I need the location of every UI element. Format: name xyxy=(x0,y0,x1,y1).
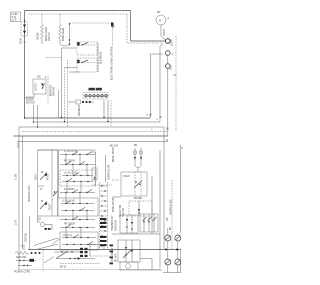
bus 6 xyxy=(18,141,168,143)
motor box xyxy=(120,262,138,270)
svg-text:R: R xyxy=(182,148,184,150)
svg-text:SW: SW xyxy=(37,77,42,79)
switch bank right verticals xyxy=(96,152,106,186)
switch door latch xyxy=(33,79,46,94)
contact row 5 xyxy=(60,190,95,194)
svg-text:Y: Y xyxy=(151,130,153,132)
contact row 6 xyxy=(61,201,94,205)
surface switch box left xyxy=(38,150,58,216)
svg-text:OVEN: OVEN xyxy=(123,176,130,178)
wire right element vertical xyxy=(69,23,71,46)
terminal marks xyxy=(45,228,48,230)
wire oven right vertical xyxy=(159,150,161,268)
junction dots on buses xyxy=(24,117,25,118)
svg-text:BR: BR xyxy=(134,145,138,147)
svg-text:SW A: SW A xyxy=(35,174,38,180)
buzzer B1 xyxy=(38,216,41,222)
switch arm diagonal xyxy=(56,252,66,259)
wire top horizontal L1 xyxy=(25,10,131,12)
wire bottom right jog xyxy=(138,269,162,271)
bottom terminal block xyxy=(15,252,41,255)
svg-text:ELECTRONIC OVEN CONTROL: ELECTRONIC OVEN CONTROL xyxy=(112,45,114,80)
svg-text:LIGHT: LIGHT xyxy=(172,39,174,46)
wire relay right vertical xyxy=(97,43,99,72)
wire bottom right bus xyxy=(163,272,181,274)
bottom mid contact row A xyxy=(54,251,80,252)
left rail 2 xyxy=(22,136,24,250)
svg-text:SWITCH: SWITCH xyxy=(123,208,125,217)
resistor bake element xyxy=(59,14,62,44)
connector curl xyxy=(60,44,69,46)
svg-text:BK: BK xyxy=(166,129,170,131)
svg-text:PILOT: PILOT xyxy=(50,203,52,210)
svg-text:BAKE 2600W: BAKE 2600W xyxy=(112,197,115,212)
contact row 8 xyxy=(60,217,95,221)
svg-text:FUSE: FUSE xyxy=(21,37,23,44)
svg-text:2: 2 xyxy=(45,77,47,79)
wire latch drop xyxy=(25,94,35,98)
svg-text:SWITCH: SWITCH xyxy=(54,87,56,96)
dashed switch box xyxy=(60,170,95,186)
lamp PL2 xyxy=(166,51,171,56)
svg-text:A: A xyxy=(172,53,174,56)
lamp PL3 xyxy=(166,64,171,69)
svg-text:L1 BK: L1 BK xyxy=(16,173,18,180)
svg-text:BK W R: BK W R xyxy=(110,146,119,148)
svg-text:SURFACE SW: SURFACE SW xyxy=(108,164,111,180)
bus 1 xyxy=(25,117,151,119)
wire dashed into box xyxy=(112,179,120,181)
sw cluster 2 xyxy=(40,200,52,210)
wire dashed right rail xyxy=(175,36,177,131)
svg-text:3400W: 3400W xyxy=(37,32,39,40)
wire lamp chain xyxy=(167,56,169,64)
connector ladder rails xyxy=(100,182,108,250)
switch box bottom xyxy=(60,232,98,250)
svg-text:GY: GY xyxy=(173,75,177,77)
wire right riser 2 xyxy=(160,44,164,122)
contact row 1 xyxy=(60,152,95,156)
svg-text:W: W xyxy=(166,140,169,142)
contact row 11 xyxy=(62,242,96,246)
lamp grid wires xyxy=(168,132,181,236)
bus 4 dashed xyxy=(22,131,168,133)
wire dashed latch rail xyxy=(47,76,49,104)
svg-text:L1 H1 L2 H2: L1 H1 L2 H2 xyxy=(64,173,78,175)
wire lamp feed xyxy=(161,25,165,40)
relay K2 xyxy=(77,58,97,72)
wire right riser 1 xyxy=(151,54,164,118)
svg-text:SURFACE UNIT: SURFACE UNIT xyxy=(28,185,31,202)
tick label mid xyxy=(38,185,44,187)
svg-text:6: 6 xyxy=(157,119,159,121)
svg-text:MONITOR: MONITOR xyxy=(51,85,53,96)
lamp grid bottom left xyxy=(165,259,171,265)
svg-text:L2 R: L2 R xyxy=(12,19,17,21)
sloped feed wires xyxy=(34,238,58,249)
element top pair xyxy=(133,148,143,172)
wire right drop xyxy=(130,11,132,42)
svg-text:BAKE ELEM: BAKE ELEM xyxy=(62,28,65,41)
thermo box 1 xyxy=(120,215,138,233)
lamp grid top right xyxy=(175,235,181,241)
wire right step xyxy=(140,259,152,271)
svg-text:DR: DR xyxy=(157,12,161,14)
wire relay feeds xyxy=(46,57,62,59)
svg-text:HARNESS: HARNESS xyxy=(78,104,81,116)
wire control left vertical xyxy=(58,90,60,118)
contact row 7 xyxy=(61,208,94,212)
wire dashed mid bus xyxy=(70,22,112,24)
svg-text:240V AC: 240V AC xyxy=(48,32,51,41)
lamp PL1 xyxy=(166,39,171,44)
lamp grid bottom right xyxy=(175,259,181,265)
long bus bottom dashed xyxy=(18,269,160,271)
wire dashed neutral bus top xyxy=(28,13,127,15)
sw cluster 1 xyxy=(35,171,50,180)
wire mid bus low xyxy=(112,233,160,235)
svg-text:DLB RELAY: DLB RELAY xyxy=(100,51,103,64)
thermo box 2 xyxy=(140,214,158,232)
svg-text:PROBE: PROBE xyxy=(134,198,143,200)
svg-text:LF 1500W: LF 1500W xyxy=(64,189,75,191)
svg-text:BK W: BK W xyxy=(60,267,67,269)
tick on left wire xyxy=(23,41,26,43)
contact row 10 xyxy=(62,235,96,239)
svg-text:P2: P2 xyxy=(114,24,116,28)
connector P1 label xyxy=(89,88,102,91)
contact row 2 xyxy=(60,162,95,166)
oven selector box xyxy=(121,172,147,196)
svg-text:M: M xyxy=(159,21,161,23)
switch box lower xyxy=(58,198,98,216)
svg-text:BZ: BZ xyxy=(40,216,42,220)
terminal row 3 xyxy=(18,265,32,266)
svg-text:SWITCH: SWITCH xyxy=(26,233,28,242)
wire bus6 corner xyxy=(17,142,19,149)
svg-text:LT: LT xyxy=(40,189,43,191)
inner rail xyxy=(51,150,53,216)
wire bus3 drop b xyxy=(37,105,39,127)
wire bottom mid xyxy=(60,263,100,265)
node L1 label block xyxy=(11,12,21,22)
bank left edge xyxy=(38,150,96,198)
svg-text:SWITCH: SWITCH xyxy=(26,103,35,105)
wire mid drops xyxy=(61,48,63,118)
wire dashed connector drop xyxy=(112,27,114,45)
svg-text:W: W xyxy=(161,115,163,118)
svg-text:OVEN: OVEN xyxy=(164,29,166,36)
connector inline plug xyxy=(68,100,94,104)
relay K1 xyxy=(77,42,97,55)
ladder rungs xyxy=(100,185,108,246)
contact row 4 xyxy=(62,179,93,183)
wire bus2 drop xyxy=(33,105,35,122)
svg-text:L2 R: L2 R xyxy=(16,220,18,225)
svg-text:BK: BK xyxy=(151,112,153,116)
svg-text:CLK: CLK xyxy=(171,65,173,70)
lower box xyxy=(118,240,140,262)
svg-text:GROUND: GROUND xyxy=(16,257,27,259)
svg-text:PILOT: PILOT xyxy=(48,173,50,180)
contact row 3 xyxy=(62,173,93,177)
svg-text:BROIL 3400W: BROIL 3400W xyxy=(113,146,115,162)
sensor dashed box xyxy=(129,198,152,216)
svg-text:POWER CORD: POWER CORD xyxy=(14,272,30,274)
svg-text:BK: BK xyxy=(170,226,172,230)
connector P1 pins xyxy=(83,93,108,100)
wire right rail B xyxy=(167,69,169,132)
wire dashed drop xyxy=(127,14,163,43)
dashed vertical right of block xyxy=(42,250,44,272)
wire pin drops xyxy=(104,100,108,122)
svg-text:LATCH: LATCH xyxy=(35,83,38,91)
switch door lock top right circle xyxy=(156,12,170,25)
svg-text:A: A xyxy=(168,17,170,20)
svg-text:SELECTOR: SELECTOR xyxy=(120,204,122,217)
rail drop to bus xyxy=(29,216,31,250)
bus 2 xyxy=(34,121,161,123)
connector J2 xyxy=(111,23,114,27)
terminal block TB1 xyxy=(80,248,88,257)
switch inner marks xyxy=(54,191,55,192)
svg-text:OR: OR xyxy=(167,217,169,221)
node junction xyxy=(24,20,25,21)
bus 5 xyxy=(14,135,168,137)
long bus bottom 1 xyxy=(28,249,181,251)
svg-text:L1 H1 L2: L1 H1 L2 xyxy=(63,235,73,237)
wire L1 main left vertical xyxy=(24,11,26,119)
svg-text:8: 8 xyxy=(147,115,149,117)
bus 3 xyxy=(19,126,164,128)
wire double horizontal to lamp xyxy=(131,40,166,42)
contact row 9 xyxy=(60,225,95,229)
connector dark blocks xyxy=(100,218,107,246)
right rail far xyxy=(180,250,182,273)
svg-text:THERMOSTAT: THERMOSTAT xyxy=(111,215,114,231)
svg-text:BK W R: BK W R xyxy=(116,253,118,262)
left rail 1 xyxy=(18,136,20,270)
lamp grid top left xyxy=(165,235,171,241)
svg-text:L1 H1 L2 H2: L1 H1 L2 H2 xyxy=(64,151,78,153)
right rail bottom xyxy=(163,127,165,250)
fuse F1 xyxy=(21,22,28,36)
bottom mid contact row B xyxy=(56,257,95,260)
svg-text:OVEN SW: OVEN SW xyxy=(116,219,118,231)
row interconnect stubs xyxy=(66,155,87,238)
connector column right xyxy=(110,245,114,265)
resistor broil element xyxy=(41,14,44,44)
wire bus3 drop xyxy=(18,127,20,136)
svg-text:BROIL ELEM: BROIL ELEM xyxy=(46,27,48,41)
terminal row 2 xyxy=(16,259,36,262)
